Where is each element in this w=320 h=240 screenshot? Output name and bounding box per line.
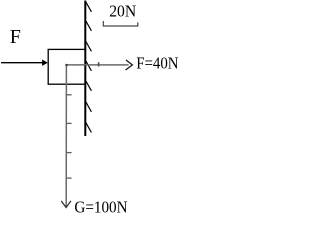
tick at 40N on vertical vector xyxy=(66,122,71,124)
weight vector G (shaft) xyxy=(65,65,67,207)
applied force arrow F (head) xyxy=(42,60,48,66)
tick at 80N on vertical vector xyxy=(66,177,71,179)
wall hatch 4 xyxy=(86,61,92,71)
tick at 20N on horizontal vector xyxy=(98,62,100,66)
wall line xyxy=(84,1,86,137)
tick at 20N on vertical vector xyxy=(66,94,71,96)
wall hatch 5 xyxy=(86,81,92,91)
wall hatch 1 xyxy=(86,2,92,12)
wall hatch 7 xyxy=(86,123,92,133)
applied force arrow F (shaft) xyxy=(1,62,43,64)
wall hatch 3 xyxy=(86,42,92,52)
block on wall xyxy=(48,49,85,84)
wall hatch 6 xyxy=(86,102,92,112)
tick at 60N on vertical vector xyxy=(66,152,71,154)
weight vector G (open head) xyxy=(61,201,71,208)
svg-text:G=100N: G=100N xyxy=(74,198,127,217)
svg-text:20N: 20N xyxy=(109,2,136,21)
vector origin corner dot xyxy=(65,64,67,66)
svg-text:F=40N: F=40N xyxy=(136,53,178,72)
scale bar bracket xyxy=(103,21,138,26)
force vector F=40N (open head) xyxy=(126,60,133,70)
force vector F=40N (shaft) xyxy=(66,64,128,66)
wall hatch 2 xyxy=(86,21,92,31)
svg-text:F: F xyxy=(10,26,21,48)
